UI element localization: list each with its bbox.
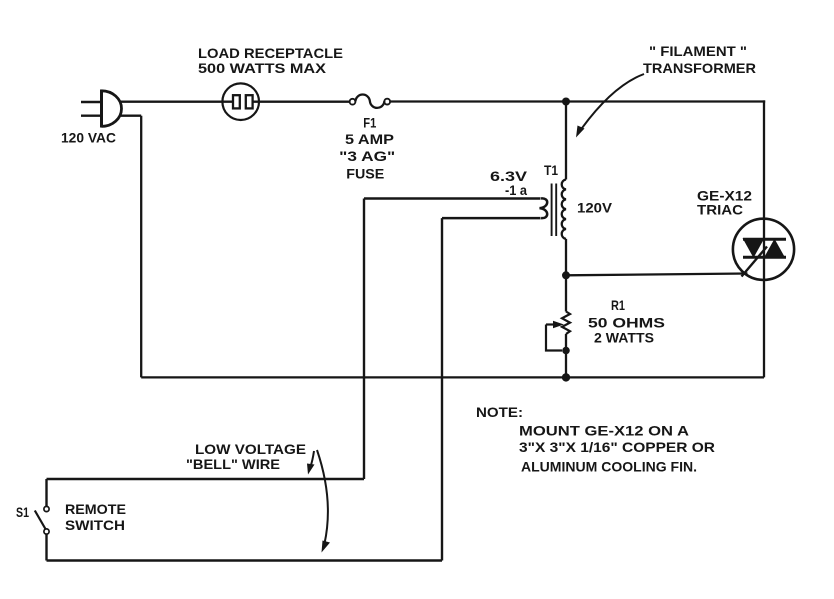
svg-text:LOAD RECEPTACLE: LOAD RECEPTACLE (198, 45, 343, 61)
svg-text:R1: R1 (611, 297, 625, 313)
svg-text:500 WATTS MAX: 500 WATTS MAX (198, 60, 327, 76)
svg-text:REMOTE: REMOTE (65, 501, 126, 517)
wire R1 to bottom wire (565, 334, 567, 377)
wire switch bottom (47, 559, 443, 562)
svg-text:5 AMP: 5 AMP (345, 131, 394, 147)
svg-text:FUSE: FUSE (346, 165, 384, 181)
wire transformer primary top drop (565, 102, 567, 180)
svg-text:NOTE:: NOTE: (476, 404, 523, 420)
junction dot R1 bottom loop (562, 347, 570, 355)
transformer T1 core (552, 184, 557, 237)
svg-text:" FILAMENT ": " FILAMENT " (649, 43, 747, 59)
svg-text:-1 a: -1 a (505, 182, 527, 198)
svg-text:"BELL" WIRE: "BELL" WIRE (186, 456, 280, 472)
wire right vertical through triac (763, 100, 765, 377)
junction dot top of transformer (562, 98, 570, 106)
svg-text:120V: 120V (577, 200, 613, 216)
triac GE-X12 (733, 219, 794, 280)
transformer T1 primary winding 120V (562, 180, 566, 239)
svg-text:SWITCH: SWITCH (65, 517, 125, 533)
svg-text:S1: S1 (16, 504, 29, 520)
switch S1 (35, 479, 49, 561)
fuse F1 (350, 94, 391, 107)
wire left secondary loop vertical (363, 199, 365, 480)
wire right secondary loop vertical (441, 218, 443, 560)
svg-text:F1: F1 (363, 115, 376, 131)
svg-text:"3 AG": "3 AG" (339, 148, 395, 164)
svg-text:TRIAC: TRIAC (697, 202, 743, 218)
svg-text:2 WATTS: 2 WATTS (594, 329, 654, 345)
load receptacle (222, 83, 259, 120)
svg-text:120 VAC: 120 VAC (61, 130, 116, 146)
svg-text:MOUNT GE-X12 ON A: MOUNT GE-X12 ON A (519, 423, 689, 439)
wire bottom main (141, 376, 764, 378)
arrow filament transformer pointer (576, 74, 644, 138)
wire secondary bottom lead (442, 217, 541, 220)
svg-text:ALUMINUM COOLING FIN.: ALUMINUM COOLING FIN. (521, 459, 697, 475)
wire gate horizontal (566, 274, 748, 276)
svg-text:3"X 3"X 1/16" COPPER OR: 3"X 3"X 1/16" COPPER OR (519, 439, 715, 455)
junction dot gate tee (562, 271, 570, 279)
junction dot bottom wire (562, 373, 570, 381)
transformer T1 secondary winding 6.3V (540, 198, 548, 218)
wire switch top (47, 478, 365, 481)
svg-text:T1: T1 (544, 162, 558, 178)
svg-text:50 OHMS: 50 OHMS (588, 314, 665, 330)
svg-text:TRANSFORMER: TRANSFORMER (643, 60, 756, 76)
wire left vertical (140, 116, 142, 378)
wire receptacle to fuse (253, 101, 350, 103)
wire plug bottom lead (121, 115, 141, 117)
wire primary bottom to R1 (565, 239, 567, 312)
wire plug to receptacle (121, 101, 234, 103)
rheostat R1 (546, 312, 570, 351)
arrow to bottom bell wire (317, 450, 330, 553)
AC plug (81, 90, 122, 128)
wire secondary top lead (364, 197, 541, 200)
wire fuse to top-right corner (390, 100, 765, 102)
svg-text:LOW VOLTAGE: LOW VOLTAGE (195, 441, 306, 457)
arrow to top bell wire (307, 451, 315, 475)
